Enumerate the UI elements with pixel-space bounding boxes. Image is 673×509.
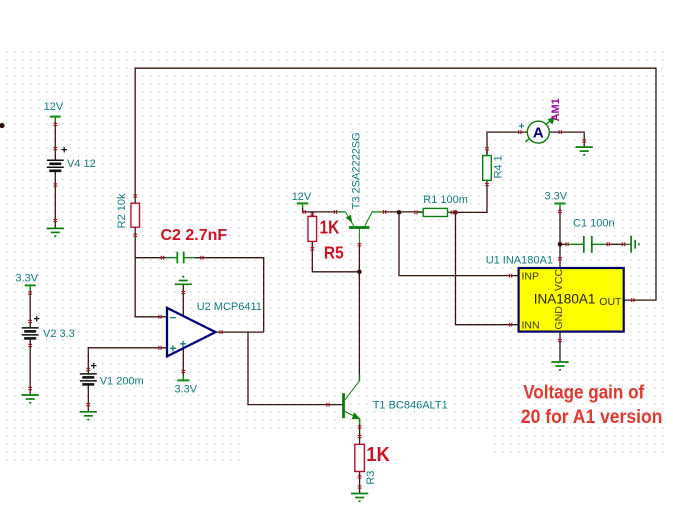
svg-text:VCC: VCC	[553, 268, 565, 291]
battery V4 12	[47, 145, 68, 171]
wire: feedback loop top/right (R2 top to INA OUT)	[135, 68, 656, 300]
svg-text:R4 1: R4 1	[493, 155, 505, 178]
op-amp U1 INA180A1	[486, 254, 624, 331]
op-amp U2 MCP6411	[167, 301, 262, 356]
wire: V4 branch	[54, 117, 56, 160]
transistor T3 2SA2222SG (PNP)	[345, 212, 372, 243]
battery V2 3.3	[22, 314, 40, 339]
wire: T3 collector lead	[372, 211, 382, 213]
wire: R2 bottom down to inverting input	[135, 227, 166, 317]
svg-text:INP: INP	[522, 271, 540, 283]
svg-text:+: +	[34, 314, 40, 326]
wire: C2 node horizontal	[135, 257, 166, 259]
wire: R1 right to R4 branch corner	[448, 151, 488, 213]
wire: R5 bottom to base node	[312, 241, 359, 271]
svg-text:AM1: AM1	[550, 98, 562, 121]
wire: V2 branch	[29, 285, 31, 328]
ground right of C1 (rotated)	[631, 236, 639, 253]
svg-text:INN: INN	[522, 320, 540, 332]
svg-text:U1 INA180A1: U1 INA180A1	[486, 254, 553, 266]
svg-text:GND: GND	[553, 306, 565, 330]
wire: op-amp V+ stem to 3.3V bar	[182, 349, 184, 380]
svg-text:+: +	[180, 337, 187, 351]
svg-text:C1 100n: C1 100n	[573, 218, 615, 230]
svg-text:Voltage gain of: Voltage gain of	[523, 381, 644, 403]
ground below V2	[22, 395, 39, 403]
resistor R3 1K	[355, 444, 377, 484]
resistor R2 10k	[116, 193, 139, 228]
svg-text:OUT: OUT	[599, 296, 622, 308]
svg-text:R1 100m: R1 100m	[423, 194, 468, 206]
wire: INN net from shunt right	[456, 212, 519, 324]
capacitor C2	[177, 252, 183, 264]
battery V1 200m	[80, 361, 97, 385]
wire: R4 top to ammeter	[487, 132, 527, 156]
wire: C2 right to feedback vertical	[195, 258, 264, 332]
wire: C2 leads	[166, 257, 177, 259]
capacitor C1	[584, 236, 592, 253]
resistor R1 100m	[423, 194, 468, 217]
svg-text:U2 MCP6411: U2 MCP6411	[197, 301, 262, 313]
svg-text:V1 200m: V1 200m	[100, 376, 144, 388]
wire: output down to T1 base	[248, 332, 344, 405]
svg-text:1K: 1K	[320, 217, 340, 238]
svg-text:3.3V: 3.3V	[16, 272, 39, 284]
svg-text:+: +	[170, 342, 177, 356]
ground right of ammeter	[576, 147, 593, 155]
wire: T1 emitter to R3	[359, 419, 361, 444]
wire: V1 ground stem	[87, 384, 89, 411]
wire: INA GND stem	[559, 332, 561, 362]
ground below V1	[80, 412, 97, 420]
wire: V1 plus to non-inverting input	[88, 348, 166, 374]
svg-text:3.3V: 3.3V	[545, 190, 568, 202]
ground below INA GND	[551, 362, 568, 370]
node: shunt right / INN junction	[453, 210, 458, 215]
svg-text:R2 10k: R2 10k	[116, 193, 128, 228]
wire: VCC node to C1	[560, 243, 565, 245]
power 3.3V supply at op-amp V+	[177, 376, 189, 381]
green component lead segments	[166, 212, 631, 425]
wire: C1 middle segment	[606, 243, 626, 245]
power 12V supply at R5	[297, 203, 309, 208]
svg-text:+: +	[519, 122, 525, 133]
ground below R3	[351, 494, 368, 502]
node: R5 / T3 base / T1 collector junction	[357, 270, 362, 275]
svg-text:R5: R5	[324, 243, 344, 263]
power 12V supply V4 top	[50, 117, 61, 122]
svg-text:20 for A1 version: 20 for A1 version	[521, 406, 663, 428]
wire: op-amp ground stem	[182, 284, 184, 315]
svg-text:12V: 12V	[44, 101, 64, 113]
svg-text:12V: 12V	[292, 191, 312, 203]
svg-text:INA180A1: INA180A1	[534, 291, 596, 306]
power 3.3V supply V2 top	[25, 285, 36, 290]
wire: T3 base node down to T1 collector	[358, 243, 360, 381]
svg-text:R3: R3	[365, 471, 377, 485]
svg-text:C2 2.7nF: C2 2.7nF	[161, 227, 228, 244]
wire: op-amp output	[216, 331, 264, 333]
wire: INP net from junction	[399, 212, 519, 275]
svg-text:T3 2SA2222SG: T3 2SA2222SG	[351, 132, 363, 209]
wire: R1 leads	[419, 211, 424, 213]
wire: R3 bottom to ground	[359, 472, 361, 494]
wire: ammeter right to ground	[549, 132, 584, 147]
wire: 3.3V rail down to VCC node	[559, 207, 561, 268]
svg-text:−: −	[170, 311, 177, 325]
wire: R5 top stem	[311, 212, 313, 217]
svg-text:3.3V: 3.3V	[175, 384, 198, 396]
resistor R5 1K	[308, 216, 317, 241]
wire: T3 collector to R1 and junction	[383, 211, 424, 213]
svg-text:A: A	[533, 124, 544, 141]
resistor R4 1	[483, 155, 505, 180]
wire: T3 emitter lead	[338, 211, 346, 213]
ground above op-amp (flipped)	[175, 277, 192, 285]
wire: 12V rail to T3 emitter and R5 tap	[303, 207, 338, 212]
svg-text:V2 3.3: V2 3.3	[43, 328, 75, 340]
node: stray dot left margin	[0, 123, 5, 128]
ground below V4	[47, 228, 64, 236]
svg-text:T1 BC846ALT1: T1 BC846ALT1	[373, 399, 448, 411]
svg-text:V4 12: V4 12	[67, 158, 96, 170]
ammeter AM1	[519, 98, 563, 143]
svg-text:+: +	[61, 145, 67, 157]
transistor T1 BC846ALT1 (NPN)	[344, 381, 360, 419]
pin end tick marks	[28, 123, 634, 489]
node: 3.3V / VCC / C1 junction	[558, 242, 563, 247]
wire: C1 leads	[565, 243, 584, 245]
power 3.3V supply at INA VCC	[554, 204, 565, 209]
svg-text:+: +	[91, 361, 97, 373]
node: T3 collector / INP junction	[397, 210, 402, 215]
svg-text:1K: 1K	[366, 443, 390, 466]
